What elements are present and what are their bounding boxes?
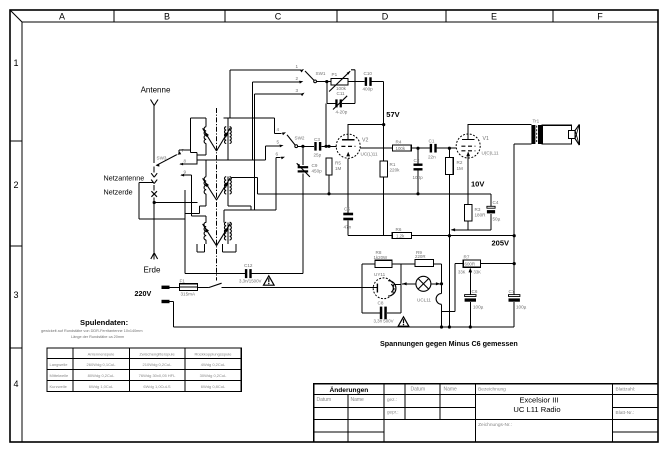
svg-text:R3: R3 — [475, 207, 481, 212]
heading Spulendaten — [41, 318, 143, 339]
wire ground bus (minus C6) — [257, 193, 491, 195]
wire C10 to 57V rail — [372, 81, 384, 83]
tube V1 U(C)L11 — [456, 124, 499, 158]
svg-text:6: 6 — [276, 152, 279, 157]
svg-text:A: A — [59, 12, 65, 22]
coil L3b secondary coil KW — [217, 222, 232, 245]
svg-text:UCL11: UCL11 — [417, 298, 431, 303]
svg-text:C2: C2 — [414, 158, 420, 163]
wire switched mains live to rectifier plate — [222, 287, 378, 289]
wire L3a bottom stub — [197, 240, 206, 252]
wire C5 to R6 — [348, 220, 392, 235]
svg-text:100µ: 100µ — [473, 305, 484, 310]
resistor R2 1M — [446, 148, 463, 174]
capacitor C5 47n — [343, 207, 353, 230]
svg-text:1,2k: 1,2k — [396, 233, 405, 238]
svg-text:Erde: Erde — [144, 266, 161, 275]
wire L1b bottom — [227, 144, 229, 160]
svg-text:U(C)L11: U(C)L11 — [482, 151, 499, 156]
trimmer C9 450p — [297, 146, 322, 273]
svg-text:600R: 600R — [465, 262, 476, 267]
node Netzantenne connector — [104, 167, 158, 184]
ferrite rod axis (dash-dot) — [216, 108, 218, 281]
svg-text:3: 3 — [296, 88, 299, 93]
svg-text:gepr.:: gepr.: — [387, 410, 399, 415]
svg-text:E: E — [491, 12, 497, 22]
wire Tr1 primary bottom to 205V rail — [514, 144, 531, 236]
wire R1 down to R6 — [383, 177, 385, 236]
wire C1 to V1 grid — [437, 147, 457, 150]
svg-text:R6: R6 — [396, 227, 402, 232]
title block — [314, 384, 658, 442]
svg-text:V1: V1 — [483, 136, 489, 142]
svg-text:C1: C1 — [429, 139, 435, 144]
svg-text:Kurzwelle: Kurzwelle — [50, 384, 68, 389]
svg-text:1: 1 — [13, 58, 18, 68]
wire netzantenne loop to coil box — [139, 183, 185, 220]
warning triangle C12 — [264, 276, 275, 285]
switch SW1 — [305, 71, 326, 83]
svg-text:210Wdg 0,2CuL: 210Wdg 0,2CuL — [143, 362, 173, 367]
resistor R3 180R — [464, 194, 486, 230]
svg-text:SW3: SW3 — [157, 156, 167, 161]
svg-text:1M: 1M — [335, 166, 342, 171]
svg-text:4-20p: 4-20p — [336, 110, 348, 115]
wire P1 right to C10 — [348, 82, 365, 104]
capacitor C12 3,3n/1500V — [239, 263, 303, 284]
fuse F1 315mA — [170, 279, 198, 297]
coil L2a antenna coil MW — [203, 177, 217, 200]
wire R2 down to bottom bus — [448, 175, 451, 329]
capacitor C7 100u — [509, 236, 527, 327]
switch contact 8 — [179, 159, 197, 166]
coil L3a antenna coil KW — [203, 222, 217, 245]
wire V1 cathode to R3/C4 — [468, 153, 484, 194]
switch contact 6 — [276, 152, 286, 210]
svg-text:220V: 220V — [135, 289, 152, 298]
svg-text:C: C — [275, 12, 282, 22]
rectifier loop right — [400, 264, 402, 313]
svg-text:Blattzahl:: Blattzahl: — [616, 386, 636, 392]
switch contact 9 — [180, 170, 206, 223]
svg-text:P1: P1 — [332, 72, 338, 77]
svg-text:R2: R2 — [457, 160, 463, 165]
svg-text:SW2: SW2 — [295, 136, 305, 141]
speaker — [542, 124, 579, 145]
switch contact 7 — [177, 148, 191, 155]
svg-text:4: 4 — [13, 379, 18, 389]
svg-text:Spannungen gegen Minus C6 geme: Spannungen gegen Minus C6 gemessen — [380, 339, 518, 348]
svg-text:1: 1 — [296, 64, 299, 69]
wire SW2 node to C3 — [298, 145, 314, 148]
antenna symbol — [141, 86, 171, 164]
svg-text:Langwelle: Langwelle — [50, 362, 69, 367]
resistor R4 100k — [360, 140, 411, 152]
svg-text:260Wdg 0,1CuL: 260Wdg 0,1CuL — [87, 362, 117, 367]
coil data table — [47, 348, 241, 391]
mains power switch — [197, 283, 221, 287]
svg-text:B: B — [164, 12, 170, 22]
svg-text:4: 4 — [277, 127, 280, 132]
switch contact 2 — [252, 76, 303, 160]
svg-text:Netzerde: Netzerde — [104, 188, 133, 197]
svg-text:Netzantenne: Netzantenne — [104, 174, 145, 183]
wire V1 anode to Tr1 — [468, 124, 531, 126]
wire R4 to C1 — [411, 147, 430, 150]
svg-text:R1: R1 — [390, 162, 396, 167]
heater chain to UCL11 tubes — [417, 284, 443, 329]
capacitor C8 3,3n 500V — [362, 301, 401, 324]
switch contact 4 — [275, 118, 286, 135]
svg-text:Änderungen: Änderungen — [329, 386, 368, 394]
resistor R5 1M — [326, 158, 342, 195]
svg-text:100k: 100k — [396, 146, 406, 151]
svg-text:2: 2 — [13, 180, 18, 190]
trimmer C11 4-20p — [327, 82, 355, 115]
svg-text:C11: C11 — [337, 91, 346, 96]
capacitor C1 22n — [428, 139, 437, 160]
svg-text:Mittelwelle: Mittelwelle — [50, 373, 69, 378]
svg-text:C12: C12 — [244, 263, 253, 268]
svg-text:180R: 180R — [475, 213, 487, 218]
svg-text:Name: Name — [444, 386, 458, 392]
svg-text:47n: 47n — [344, 225, 352, 230]
svg-text:4Wdg 0,2CuL: 4Wdg 0,2CuL — [201, 362, 226, 367]
wire L3b bottom stub — [222, 240, 236, 252]
svg-text:Rückkopplungsspule: Rückkopplungsspule — [195, 352, 233, 357]
wire heater node to R7 — [442, 264, 456, 312]
svg-text:SW1: SW1 — [316, 71, 326, 76]
svg-text:Name: Name — [351, 397, 365, 403]
svg-text:6Wdg 1,0CuL: 6Wdg 1,0CuL — [89, 384, 114, 389]
svg-text:33K: 33K — [458, 270, 466, 275]
svg-text:C9: C9 — [312, 163, 318, 168]
wire L1a bottom — [197, 144, 206, 156]
svg-text:Zwischengitterspule: Zwischengitterspule — [139, 352, 175, 357]
svg-text:Excelsior III: Excelsior III — [519, 396, 558, 405]
svg-text:gez.:: gez.: — [387, 397, 397, 402]
capacitor C2 100p — [413, 148, 424, 195]
wire C3 to V2 grid — [321, 145, 336, 148]
wire band bus gap1 — [197, 160, 266, 177]
wire L2a bottom — [185, 194, 206, 214]
svg-text:C10: C10 — [364, 71, 373, 76]
wire netzerde to coil unit — [154, 202, 197, 204]
wire cathode network return — [451, 228, 491, 231]
svg-text:7: 7 — [182, 148, 185, 153]
wire mains neutral / bottom bus — [170, 302, 515, 328]
svg-text:gewickelt auf Rundstäbe von DD: gewickelt auf Rundstäbe von DDR-Ferritan… — [41, 329, 143, 333]
resistor R9 220R — [401, 250, 442, 266]
svg-text:10V: 10V — [471, 180, 484, 189]
coil L1a antenna coil LW — [203, 127, 217, 151]
svg-text:Tr1: Tr1 — [533, 119, 540, 124]
svg-text:D: D — [382, 12, 389, 22]
svg-text:3,3n 500V: 3,3n 500V — [374, 319, 394, 324]
dial lamp — [402, 276, 441, 291]
tube UY11 rectifier — [373, 272, 401, 299]
svg-text:Datum: Datum — [411, 386, 426, 392]
svg-text:C4: C4 — [493, 200, 499, 205]
switch contact 3 — [255, 88, 305, 210]
potentiometer R7 600R — [455, 254, 516, 274]
svg-text:33K: 33K — [474, 270, 482, 275]
wire V2 anode to 57V — [348, 124, 384, 126]
svg-text:Bezeichnung: Bezeichnung — [478, 386, 506, 392]
svg-text:25p: 25p — [314, 153, 322, 158]
svg-text:450p: 450p — [312, 168, 323, 173]
svg-text:3: 3 — [13, 290, 18, 300]
switch contact 1 — [230, 64, 304, 118]
potentiometer P1 100k — [329, 70, 355, 92]
svg-text:Antennenspule: Antennenspule — [88, 352, 115, 357]
svg-text:C3: C3 — [314, 137, 320, 142]
switch SW2 — [287, 135, 305, 148]
svg-text:400p: 400p — [363, 87, 374, 92]
svg-text:5: 5 — [277, 140, 280, 145]
svg-text:8: 8 — [184, 159, 187, 164]
220V mains terminals — [135, 286, 170, 304]
svg-text:UC(L)11: UC(L)11 — [361, 152, 378, 157]
svg-text:F: F — [597, 12, 603, 22]
node 57V rail — [382, 82, 400, 127]
wire L2b tap to ground bus — [232, 178, 258, 194]
svg-text:2: 2 — [296, 76, 299, 81]
tube V2 UC(L)11 — [336, 124, 378, 158]
svg-text:30Wdg 0,2CuL: 30Wdg 0,2CuL — [200, 373, 227, 378]
svg-text:Spulendaten:: Spulendaten: — [80, 318, 128, 327]
capacitor C10 400p — [363, 71, 374, 92]
svg-text:220k: 220k — [390, 167, 401, 172]
svg-text:22n: 22n — [428, 154, 436, 159]
svg-text:220R: 220R — [415, 254, 426, 259]
svg-text:C5: C5 — [344, 207, 350, 212]
svg-text:UY11: UY11 — [374, 272, 386, 277]
transformer Tr1 — [531, 119, 542, 145]
svg-text:205V: 205V — [492, 238, 510, 247]
earth lead — [144, 203, 161, 275]
svg-text:100p: 100p — [413, 175, 424, 180]
wire band bus gap2 — [224, 210, 276, 222]
svg-text:Datum: Datum — [317, 397, 332, 403]
wire SW1 to P1 node — [317, 80, 331, 83]
svg-text:F1: F1 — [180, 279, 186, 284]
svg-text:315mA: 315mA — [181, 291, 196, 296]
wire L1a top — [191, 118, 207, 164]
svg-text:9: 9 — [184, 170, 187, 175]
svg-text:1k20W: 1k20W — [374, 255, 389, 260]
wire L1b top to band node — [224, 118, 275, 127]
svg-text:6Wdg 0,8CuL: 6Wdg 0,8CuL — [201, 384, 226, 389]
svg-text:C8: C8 — [378, 301, 384, 306]
wire R6 to 205V rail — [412, 234, 516, 247]
svg-text:UC L11 Radio: UC L11 Radio — [513, 405, 560, 414]
svg-text:Blatt-Nr.:: Blatt-Nr.: — [616, 410, 635, 416]
svg-text:1M: 1M — [457, 166, 464, 171]
rectifier loop left — [361, 264, 363, 313]
note Spannungen — [380, 339, 518, 348]
switch SW3 — [156, 155, 177, 167]
coil L2b secondary coil MW — [217, 177, 232, 200]
svg-text:Länge der Rundstäbe ca 20mm: Länge der Rundstäbe ca 20mm — [71, 335, 124, 339]
svg-text:100µ: 100µ — [516, 305, 527, 310]
svg-text:R4: R4 — [396, 140, 402, 145]
svg-text:R7: R7 — [464, 254, 470, 259]
svg-text:C6: C6 — [472, 289, 478, 294]
svg-text:Zeichnungs-Nr.:: Zeichnungs-Nr.: — [478, 422, 512, 428]
svg-text:6Wdg 1,0CuLS: 6Wdg 1,0CuLS — [143, 384, 170, 389]
resistor R1 220k — [380, 161, 400, 177]
resistor R6 1,2k — [392, 227, 411, 239]
svg-text:V2: V2 — [362, 138, 368, 144]
wire L2b bottom — [228, 194, 251, 210]
wire V2 cathode to C5 — [347, 158, 349, 212]
wire coil box left/bottom — [185, 190, 245, 274]
coil L1b secondary coil LW — [217, 127, 232, 151]
warning triangle C8 — [398, 317, 409, 326]
capacitor C4 50u — [468, 194, 500, 230]
wire C11 loop down to V2 grid node — [325, 103, 327, 146]
svg-text:R5: R5 — [335, 161, 341, 166]
svg-text:Antenne: Antenne — [141, 86, 171, 95]
svg-text:80Wdg 0,2CuL: 80Wdg 0,2CuL — [88, 373, 115, 378]
svg-text:57V: 57V — [386, 110, 399, 119]
svg-text:50µ: 50µ — [493, 217, 501, 222]
svg-text:76Wdg 30x0,05 HFL: 76Wdg 30x0,05 HFL — [139, 373, 176, 378]
node Netzerde connector — [104, 185, 158, 204]
switch contact 5 — [266, 140, 284, 160]
svg-text:3,3n/1500V: 3,3n/1500V — [239, 279, 262, 284]
capacitor C3 25p — [314, 137, 322, 158]
wire R9 to lamp junction — [440, 264, 443, 286]
svg-text:C7: C7 — [509, 289, 515, 294]
capacitor C6 100u — [465, 272, 484, 329]
resistor R8 1k20W — [362, 250, 401, 268]
wire 57V rail down to R1 — [383, 125, 385, 162]
